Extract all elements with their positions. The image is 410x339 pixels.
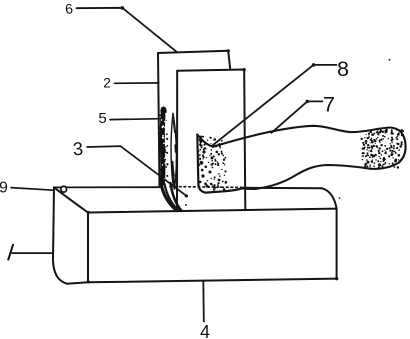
- abrasive strip 5 (dark stippled band): [159, 107, 179, 211]
- svg-text:4: 4: [200, 322, 210, 339]
- leader 1: [12, 252, 53, 254]
- svg-text:5: 5: [98, 110, 106, 127]
- leader 9: [11, 188, 53, 191]
- base block 1 top back edge left: [54, 186, 158, 188]
- svg-text:9: 9: [0, 180, 8, 197]
- wedge 8 (stippled flap): [197, 135, 244, 193]
- base block bottom-left edge: [67, 282, 88, 283]
- svg-text:2: 2: [103, 76, 111, 91]
- base block bottom edge: [88, 279, 337, 283]
- front plate outline: [177, 68, 246, 210]
- leader 4: [202, 281, 205, 322]
- base block left slant edge: [54, 187, 88, 212]
- base block hidden top edge (dotted): [170, 186, 243, 189]
- svg-text:3: 3: [72, 138, 84, 160]
- svg-text:8: 8: [337, 57, 349, 81]
- base block front top edge: [88, 209, 337, 213]
- leader 3: [87, 146, 187, 196]
- leader 2: [115, 82, 159, 84]
- leader 8: [212, 65, 337, 146]
- cap stipple: [361, 129, 405, 169]
- base block top back edge right: [244, 187, 322, 190]
- wavy band 7 top edge: [213, 126, 390, 147]
- corner circle 9: [61, 186, 67, 192]
- base block rounded top-right corner: [322, 188, 337, 208]
- base block left back edge: [53, 187, 67, 283]
- base block right edge: [336, 209, 338, 279]
- band bottom edge: [242, 165, 371, 189]
- base block front-left edge: [87, 213, 89, 283]
- svg-text:7: 7: [323, 93, 335, 117]
- back plate 2 outline: [158, 49, 230, 187]
- leader 5: [110, 118, 161, 121]
- label 1: [8, 245, 13, 260]
- thin leaf strip 3: [171, 114, 182, 211]
- leader 6: [77, 8, 177, 52]
- stray specks: [389, 59, 391, 61]
- leader 7: [272, 101, 323, 132]
- band right end cap: [371, 128, 406, 169]
